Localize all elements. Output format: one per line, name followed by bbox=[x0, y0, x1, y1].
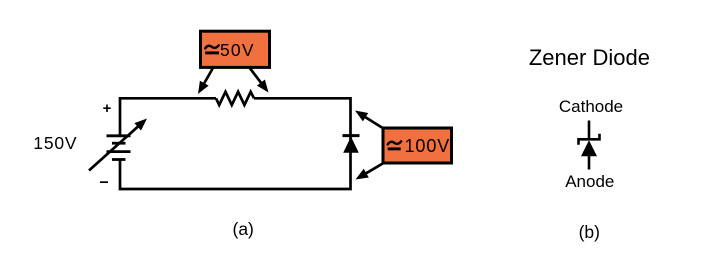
wire left+top segment bbox=[120, 98, 216, 137]
svg-text:Anode: Anode bbox=[565, 172, 614, 191]
arrow from 50V box to resistor right end bbox=[249, 67, 269, 93]
wire top-right, right, bottom, lower-left segment bbox=[120, 98, 351, 189]
svg-text:(a): (a) bbox=[233, 219, 254, 239]
svg-text:Zener Diode: Zener Diode bbox=[529, 45, 650, 70]
svg-text:100V: 100V bbox=[405, 136, 451, 156]
arrow from 100V box to diode bottom bbox=[356, 163, 384, 180]
svg-text:50V: 50V bbox=[220, 40, 255, 60]
callout box 50V bbox=[201, 31, 270, 67]
svg-text:+: + bbox=[103, 100, 112, 117]
svg-text:Cathode: Cathode bbox=[559, 97, 623, 116]
zener diode symbol (b) anode triangle bbox=[581, 140, 597, 156]
arrow from 50V box to resistor left end bbox=[198, 67, 214, 94]
arrow from 100V box to diode top bbox=[355, 111, 384, 129]
zener diode D1 in circuit bbox=[343, 136, 360, 153]
zener diode symbol (b) bent cathode bar bbox=[579, 134, 600, 145]
svg-text:(b): (b) bbox=[579, 222, 600, 242]
callout box 100V bbox=[383, 128, 452, 163]
zener diode symbol (b) anode wire bbox=[588, 156, 591, 170]
resistor R1 bbox=[216, 92, 254, 105]
battery B1 (variable source) plates bbox=[107, 136, 131, 160]
svg-text:150V: 150V bbox=[33, 133, 77, 153]
svg-text:−: − bbox=[99, 174, 108, 191]
zener diode symbol (b) cathode wire bbox=[588, 121, 591, 139]
variable-source diagonal arrow bbox=[89, 119, 147, 171]
